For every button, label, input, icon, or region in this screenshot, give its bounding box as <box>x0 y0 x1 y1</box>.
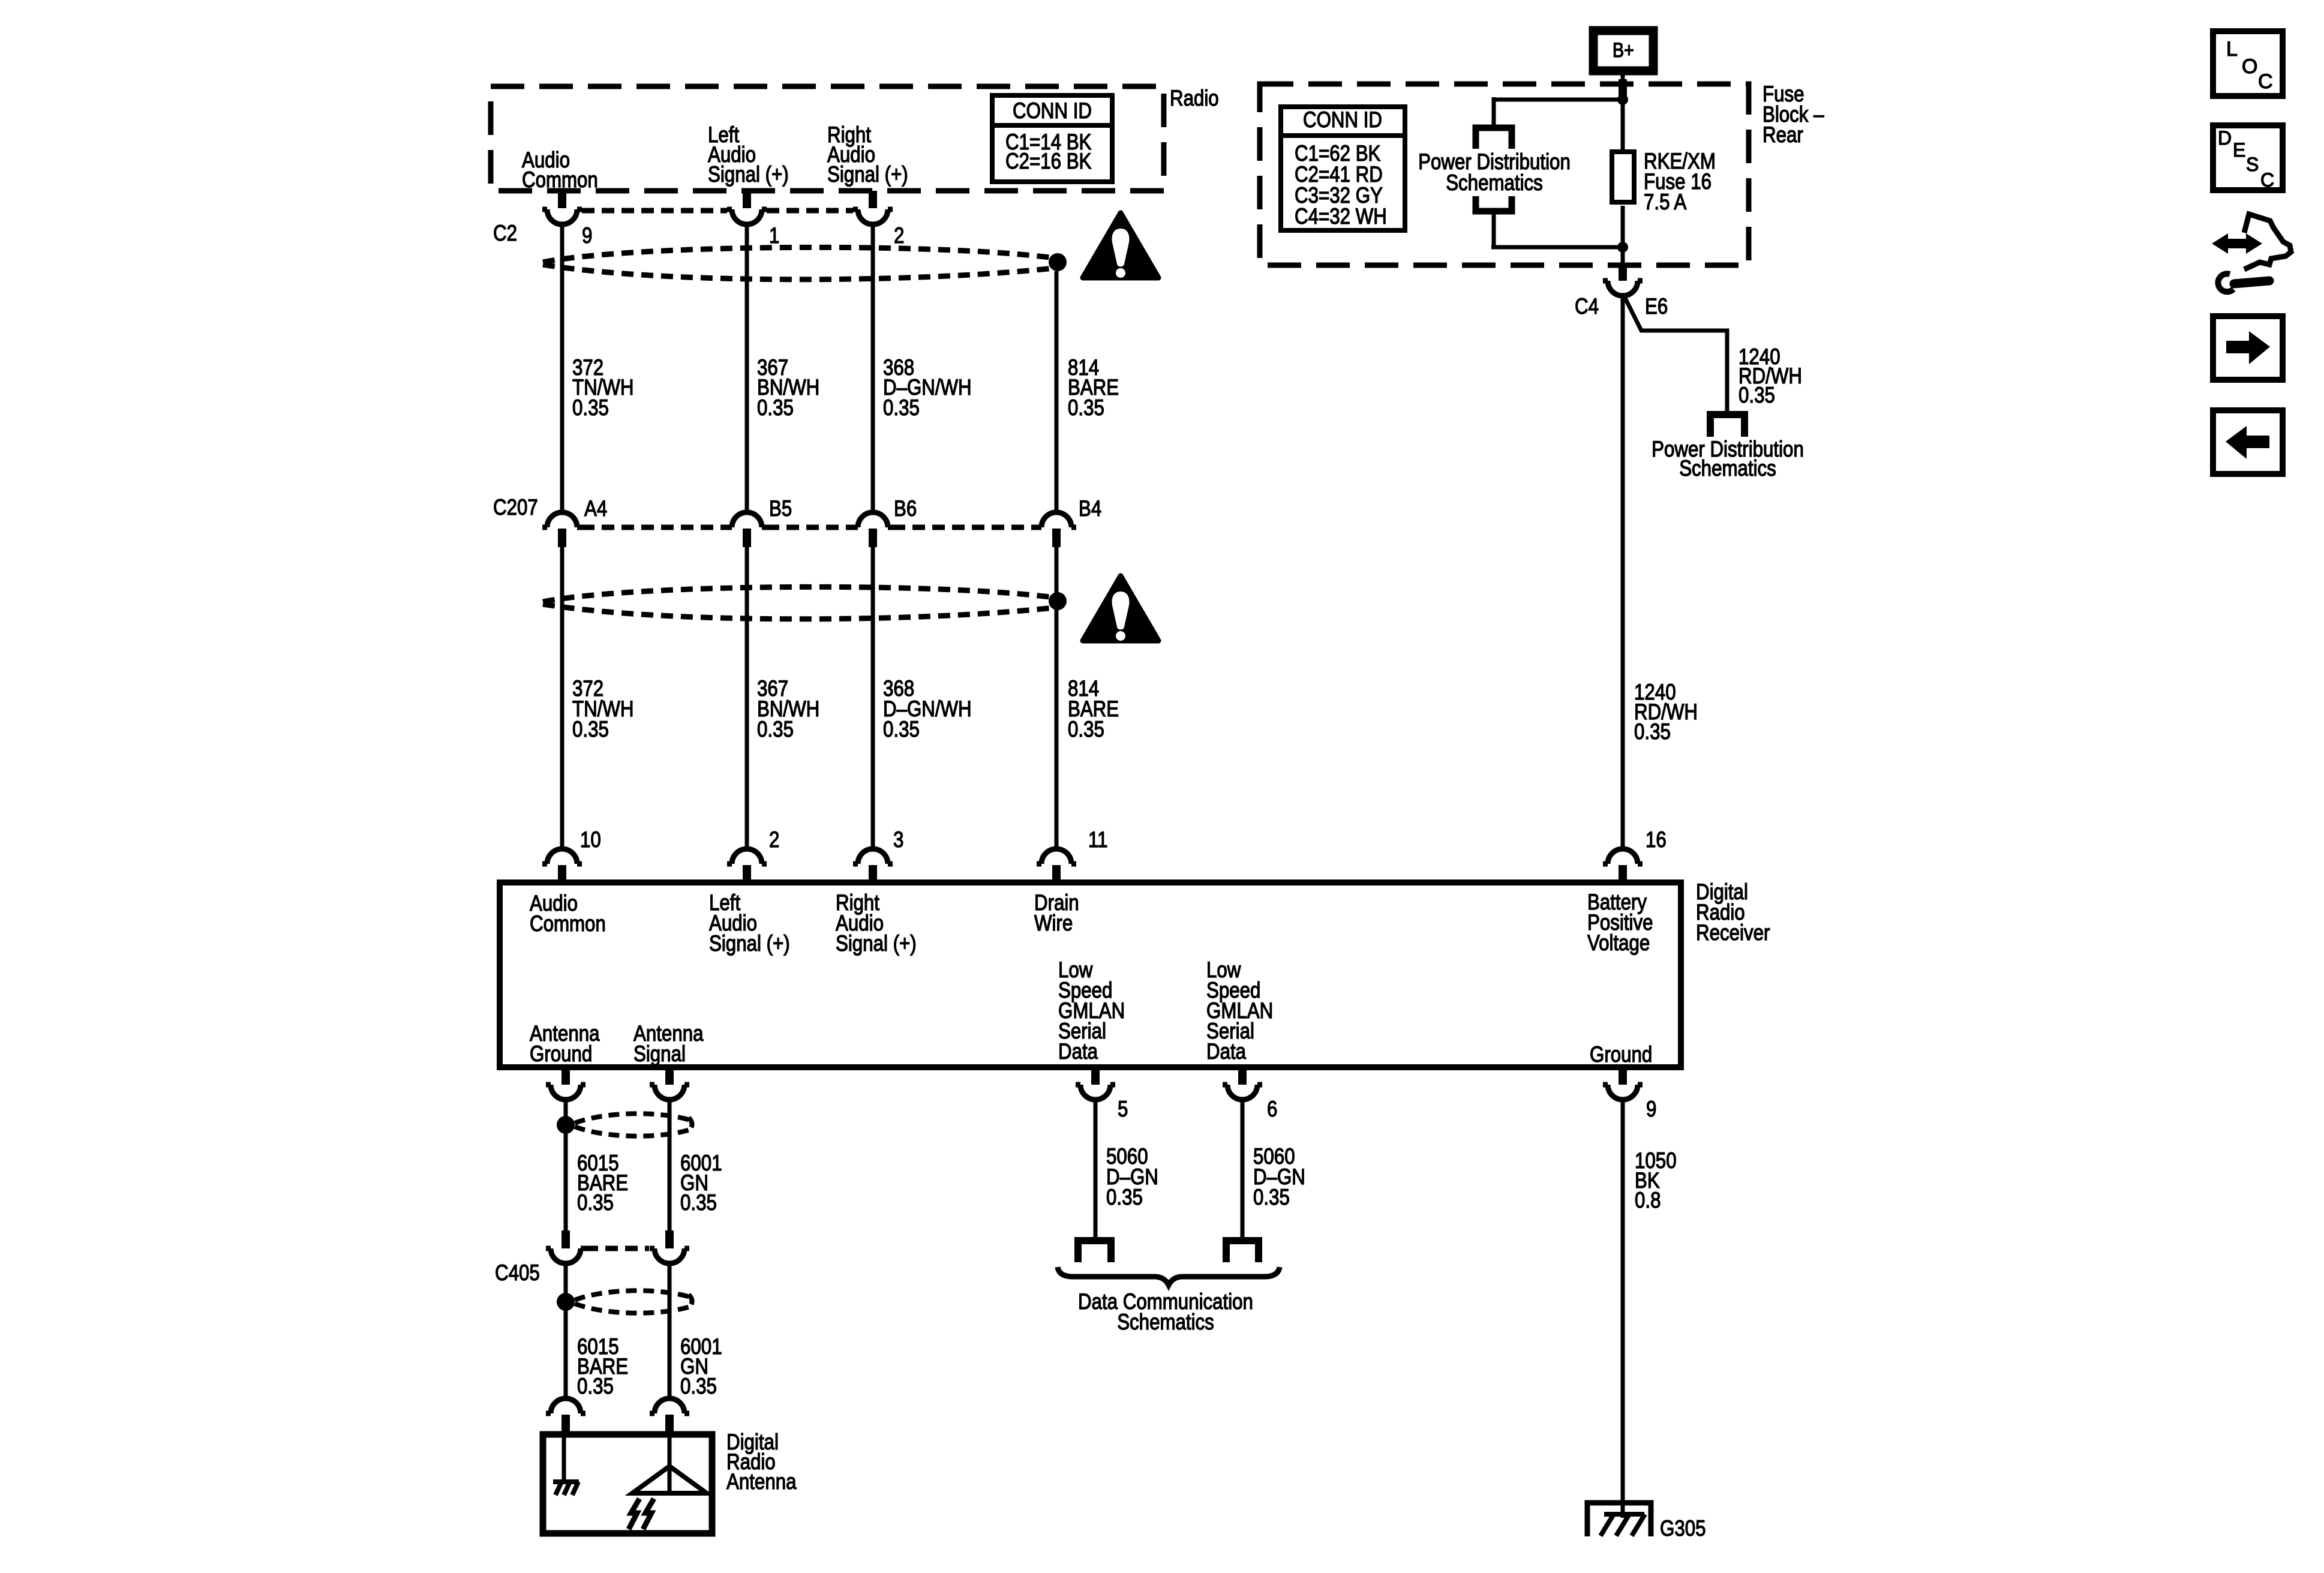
svg-text:CONN ID: CONN ID <box>1013 98 1092 123</box>
antenna box signal connector cup <box>650 1398 689 1413</box>
B+ feed stub through fuse block border <box>1619 79 1627 97</box>
connector C2 pin 1 cup <box>727 209 767 224</box>
svg-text:C2=16 BK: C2=16 BK <box>1005 149 1092 173</box>
connector C207 cavity B5 cup <box>727 512 767 527</box>
node antenna ground shield junction lower <box>557 1293 575 1311</box>
wire branch top to power distribution <box>1494 98 1625 102</box>
fuse RKE/XM Fuse 16 element <box>1612 152 1634 202</box>
svg-text:0.35: 0.35 <box>1253 1185 1290 1209</box>
wire 5060 D-GN (pin 6) <box>1241 1100 1245 1238</box>
receiver antenna signal stub <box>665 1067 674 1085</box>
C207 row dashed link 3 <box>893 525 1037 530</box>
Digital Radio Receiver box <box>500 882 1681 1067</box>
connector C207 cavity A4 cup <box>542 512 582 527</box>
svg-text:C: C <box>2260 169 2274 191</box>
svg-text:0.35: 0.35 <box>577 1374 614 1398</box>
svg-text:0.35: 0.35 <box>883 395 920 420</box>
connector C4 stub <box>1619 266 1627 281</box>
wire 6001 GN lower segment <box>668 1263 672 1400</box>
svg-text:O: O <box>2242 55 2257 78</box>
svg-text:0.35: 0.35 <box>572 395 609 420</box>
svg-text:2: 2 <box>769 827 779 852</box>
Digital Radio Antenna box <box>543 1434 712 1533</box>
svg-text:Signal: Signal <box>633 1041 686 1066</box>
receiver pin 11 cup <box>1037 849 1076 864</box>
svg-text:Common: Common <box>522 167 598 192</box>
receiver pin 5 cup <box>1076 1085 1115 1100</box>
receiver pin 3 cup <box>853 849 893 864</box>
receiver antenna ground stub <box>562 1067 570 1085</box>
off-page half-box (pin 5 wire) <box>1078 1241 1111 1262</box>
connector C405 ground stub <box>562 1230 570 1248</box>
svg-text:Common: Common <box>530 911 606 936</box>
svg-text:3: 3 <box>893 827 903 852</box>
off-page half-box to Power Distribution Schematics <box>1710 415 1744 437</box>
off-page half-box up (power distribution feed) <box>1476 128 1512 149</box>
svg-text:0.35: 0.35 <box>680 1374 717 1398</box>
svg-text:1: 1 <box>769 223 779 248</box>
warning triangle 1 <box>1083 213 1158 278</box>
ground G305 symbol <box>1587 1503 1651 1536</box>
icon arrow right box <box>2213 316 2283 380</box>
svg-text:Schematics: Schematics <box>1117 1310 1214 1334</box>
receiver pin 9 stub <box>1619 1067 1627 1085</box>
svg-text:Antenna: Antenna <box>726 1469 797 1494</box>
wire 372 TN/WH lower segment <box>560 547 565 849</box>
wire antenna ground inside box <box>562 1434 566 1482</box>
C2 connector row dashed link <box>582 208 727 214</box>
connector C2 pin 9 cup <box>542 209 582 224</box>
svg-text:6: 6 <box>1267 1097 1277 1121</box>
chassis ground symbol (antenna) <box>553 1482 579 1495</box>
wire 372 TN/WH upper segment <box>560 224 565 513</box>
svg-text:0.35: 0.35 <box>883 717 920 742</box>
wire 1050 BK to ground <box>1621 1100 1625 1518</box>
wire fuse output down to C4 <box>1621 206 1625 268</box>
antenna symbol <box>632 1466 707 1493</box>
wire 367 BN/WH lower segment <box>745 547 749 849</box>
svg-text:CONN ID: CONN ID <box>1303 107 1382 132</box>
svg-text:Schematics: Schematics <box>1679 456 1776 481</box>
small shield ellipse upper (antenna cable) <box>575 1113 692 1136</box>
svg-text:Data: Data <box>1058 1039 1098 1064</box>
wire antenna mast inside box <box>668 1434 672 1493</box>
svg-text:Voltage: Voltage <box>1587 930 1650 955</box>
svg-text:Ground: Ground <box>530 1041 592 1066</box>
svg-text:C4=32 WH: C4=32 WH <box>1295 204 1387 229</box>
svg-text:0.35: 0.35 <box>577 1190 614 1215</box>
wire lead from power distribution box down <box>1492 213 1496 247</box>
svg-text:C: C <box>2258 70 2273 93</box>
receiver pin 16 cup <box>1603 849 1643 864</box>
wire 368 D-GN/WH upper segment <box>871 224 875 513</box>
receiver pin 9 cup <box>1603 1085 1643 1100</box>
svg-text:10: 10 <box>580 827 601 852</box>
wire 6015 BARE upper segment <box>564 1100 568 1232</box>
svg-text:5: 5 <box>1118 1097 1128 1121</box>
svg-text:Signal (+): Signal (+) <box>708 162 789 187</box>
connector C2 pin 2 stub <box>869 191 877 208</box>
node branch to power distribution <box>1617 94 1628 105</box>
connector C207 cavity B6 cup <box>853 512 893 527</box>
svg-text:0.35: 0.35 <box>757 395 794 420</box>
wire lead down to power distribution box <box>1492 97 1496 125</box>
svg-text:C4: C4 <box>1575 294 1599 319</box>
svg-text:0.35: 0.35 <box>680 1190 717 1215</box>
svg-text:L: L <box>2226 38 2238 61</box>
node antenna ground shield junction upper <box>557 1116 575 1134</box>
svg-text:Data: Data <box>1206 1039 1246 1064</box>
svg-text:2: 2 <box>894 223 904 248</box>
svg-text:Wire: Wire <box>1034 911 1073 935</box>
receiver pin 6 stub <box>1238 1067 1247 1085</box>
C207 row dashed link 2 <box>767 525 853 530</box>
brace (data communication) <box>1058 1267 1280 1285</box>
icon arrow left box <box>2213 410 2283 474</box>
icon LOC box <box>2213 31 2283 96</box>
connector C207 cavity B4 cup <box>1037 512 1076 527</box>
wire branch bottom from power distribution <box>1491 245 1625 250</box>
off-page half-box (pin 6 wire) <box>1226 1241 1259 1262</box>
svg-text:B+: B+ <box>1613 39 1634 62</box>
connector C405 signal cup <box>650 1248 689 1263</box>
wire E6 branch diagonal <box>1625 297 1727 413</box>
receiver pin 2 cup <box>727 849 767 864</box>
svg-text:Signal (+): Signal (+) <box>709 931 790 956</box>
node drain junction lower <box>1049 592 1067 610</box>
wire 368 D-GN/WH lower segment <box>871 547 875 849</box>
icon DESC box <box>2213 125 2283 191</box>
wire 814 BARE drain lower segment <box>1055 547 1059 849</box>
connector C2 pin 2 cup <box>853 209 893 224</box>
svg-text:Signal (+): Signal (+) <box>827 162 908 187</box>
svg-text:11: 11 <box>1088 827 1108 852</box>
svg-text:S: S <box>2246 154 2259 175</box>
svg-text:0.35: 0.35 <box>757 717 794 742</box>
svg-text:C2: C2 <box>493 221 517 245</box>
wire 6001 GN upper segment <box>668 1100 672 1232</box>
B+ battery feed box <box>1593 31 1653 71</box>
node drain junction upper <box>1049 253 1067 271</box>
wire 6015 BARE lower segment <box>564 1263 568 1400</box>
svg-text:C405: C405 <box>495 1260 540 1285</box>
antenna lightning bolts <box>629 1499 639 1529</box>
svg-text:B6: B6 <box>894 496 917 521</box>
svg-text:A4: A4 <box>584 496 607 521</box>
connector C4 cup <box>1603 281 1643 296</box>
antenna box ground connector cup <box>546 1398 585 1413</box>
connector C405 signal stub <box>665 1230 674 1248</box>
off-page half-box down (power distribution return) <box>1476 196 1512 211</box>
receiver pin 6 cup <box>1223 1085 1262 1100</box>
shield ellipse lower (twisted/shielded cable) <box>543 587 1054 619</box>
Fuse Block - Rear dashed box <box>1260 84 1749 265</box>
svg-text:9: 9 <box>582 223 592 248</box>
receiver pin 5 stub <box>1091 1067 1100 1085</box>
svg-text:Rear: Rear <box>1762 122 1803 147</box>
shield ellipse upper (twisted/shielded cable) <box>543 247 1054 279</box>
C405 row dashed link <box>585 1246 649 1251</box>
svg-text:0.35: 0.35 <box>1106 1185 1143 1209</box>
svg-text:0.35: 0.35 <box>1634 719 1671 744</box>
wire 5060 D-GN (pin 5) <box>1094 1100 1098 1238</box>
warning triangle 2 <box>1083 576 1158 641</box>
svg-text:D: D <box>2218 127 2232 149</box>
svg-text:C207: C207 <box>493 495 538 520</box>
svg-text:16: 16 <box>1646 827 1667 852</box>
receiver pin 10 cup <box>542 849 582 864</box>
wire 367 BN/WH upper segment <box>745 224 749 513</box>
receiver antenna ground cup <box>546 1085 585 1100</box>
svg-text:7.5 A: 7.5 A <box>1644 190 1687 214</box>
svg-text:Receiver: Receiver <box>1696 920 1770 945</box>
icon diagnosis (double arrow, outline, wrench) <box>2212 214 2291 292</box>
wire 1240 RD/WH main down to receiver pin 16 <box>1621 296 1625 849</box>
C2 connector row dashed link 2 <box>767 208 853 214</box>
wire 814 BARE drain upper segment <box>1055 271 1059 512</box>
wire B+ feed into fuse block <box>1621 71 1625 150</box>
svg-text:9: 9 <box>1646 1097 1656 1121</box>
connector C2 pin 9 stub <box>558 191 566 208</box>
svg-text:B4: B4 <box>1079 496 1101 521</box>
svg-text:E6: E6 <box>1645 294 1668 319</box>
CONN ID table (radio) <box>992 95 1112 182</box>
svg-text:0.35: 0.35 <box>1068 717 1104 742</box>
CONN ID table (fuse block) <box>1281 107 1405 230</box>
svg-text:G305: G305 <box>1660 1516 1706 1541</box>
svg-text:Signal (+): Signal (+) <box>836 931 917 956</box>
small shield ellipse lower (antenna cable) <box>575 1290 692 1313</box>
svg-text:Ground: Ground <box>1590 1042 1652 1067</box>
connector C2 pin 1 stub <box>743 191 751 208</box>
svg-text:0.35: 0.35 <box>1068 395 1104 420</box>
svg-text:E: E <box>2233 139 2245 161</box>
svg-text:0.35: 0.35 <box>1739 383 1775 407</box>
svg-text:Radio: Radio <box>1170 86 1219 110</box>
svg-text:Schematics: Schematics <box>1446 170 1543 195</box>
receiver antenna signal cup <box>650 1085 689 1100</box>
connector C405 ground cup <box>546 1248 585 1263</box>
C207 row dashed link 1 <box>582 525 727 530</box>
svg-text:0.35: 0.35 <box>572 717 609 742</box>
node branch rejoin <box>1617 242 1628 253</box>
Radio component dashed box <box>491 86 1164 191</box>
svg-text:B5: B5 <box>769 496 792 521</box>
svg-text:0.8: 0.8 <box>1635 1188 1661 1212</box>
